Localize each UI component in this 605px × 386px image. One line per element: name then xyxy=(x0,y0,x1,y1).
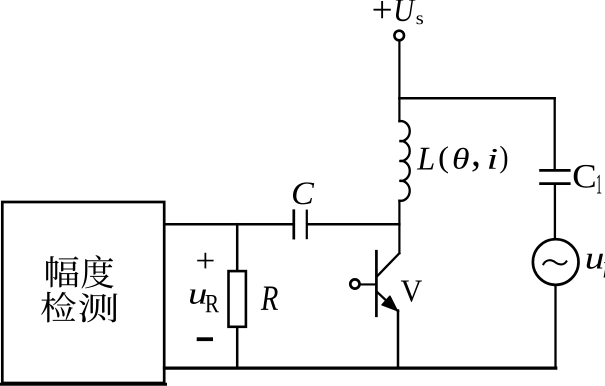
transistor V base terminal circle xyxy=(350,279,359,288)
transistor V base stub wire xyxy=(360,283,375,285)
text jian (detect) xyxy=(41,292,76,323)
label i xyxy=(489,149,497,169)
transistor V emitter lead xyxy=(378,293,398,312)
inductor L(theta,i) coil xyxy=(399,121,409,201)
wire: resistor R down to rail xyxy=(236,328,239,368)
box bottom edge (heavy) xyxy=(1,383,166,386)
label i subscript of ui xyxy=(604,256,605,278)
capacitor C right plate xyxy=(306,211,308,238)
box: amplitude detector xyxy=(2,202,164,383)
capacitor C left plate xyxy=(292,211,295,238)
label comma xyxy=(473,161,479,171)
label R resistor xyxy=(261,286,278,309)
wire: box to capacitor C xyxy=(165,223,293,226)
label R subscript of uR xyxy=(206,295,219,312)
label 1 subscript of C1 xyxy=(597,175,601,194)
wire: C to collector node xyxy=(308,223,400,226)
wire: top branch horizontal xyxy=(399,97,554,100)
capacitor C1 top plate xyxy=(541,169,570,172)
label u of ui xyxy=(587,254,603,269)
label ) xyxy=(500,146,507,174)
label V transistor xyxy=(401,281,422,302)
label + of Us xyxy=(374,1,391,18)
label u of uR xyxy=(190,290,206,304)
label U of Us xyxy=(396,0,416,21)
label s subscript of Us xyxy=(417,15,423,24)
capacitor C1 bottom plate xyxy=(541,182,570,185)
label L xyxy=(417,148,434,170)
wire: source ui down to rail xyxy=(554,285,556,367)
text du xyxy=(81,255,113,288)
wire: inductor to collector corner xyxy=(398,201,400,254)
label + of uR xyxy=(197,253,213,269)
text ce xyxy=(79,293,118,322)
label C of C1 xyxy=(574,165,595,188)
terminal circle +Us xyxy=(394,31,404,41)
wire: C1 down to source ui xyxy=(554,185,556,239)
label minus of uR xyxy=(197,337,213,341)
wire: node down to resistor R xyxy=(236,224,239,270)
label ( xyxy=(440,146,449,173)
wire: emitter down to rail xyxy=(397,311,400,368)
resistor R body xyxy=(229,271,246,327)
AC source ui circle xyxy=(533,239,579,285)
transistor V emitter arrowhead xyxy=(382,296,397,311)
label C capacitor xyxy=(293,182,314,204)
wire: right branch down to C1 xyxy=(554,98,556,169)
label theta xyxy=(454,148,469,169)
transistor V collector lead xyxy=(378,253,400,275)
wire: terminal down to branch node xyxy=(398,41,400,121)
text fu (amplitude) xyxy=(46,256,78,287)
bottom rail wire xyxy=(165,366,556,369)
AC source tilde mark xyxy=(543,260,566,264)
transistor V base bar xyxy=(375,251,378,316)
